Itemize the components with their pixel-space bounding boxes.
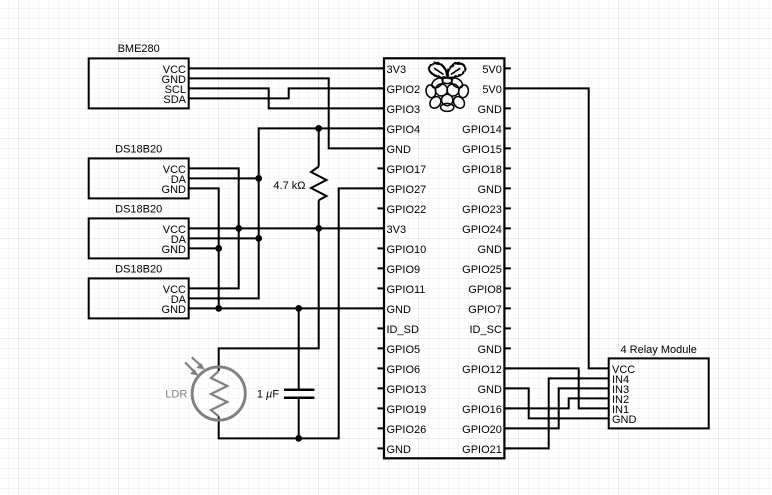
svg-text:4.7 kΩ: 4.7 kΩ bbox=[273, 180, 305, 192]
svg-text:3V3: 3V3 bbox=[387, 64, 407, 76]
svg-text:GND: GND bbox=[387, 444, 412, 456]
svg-text:BME280: BME280 bbox=[118, 43, 160, 55]
svg-text:3V3: 3V3 bbox=[387, 224, 407, 236]
svg-text:GPIO12: GPIO12 bbox=[462, 364, 502, 376]
svg-text:GPIO3: GPIO3 bbox=[387, 104, 421, 116]
svg-text:GPIO19: GPIO19 bbox=[387, 404, 427, 416]
svg-text:GND: GND bbox=[477, 384, 502, 396]
svg-text:GPIO24: GPIO24 bbox=[462, 224, 502, 236]
svg-text:GPIO2: GPIO2 bbox=[387, 84, 421, 96]
svg-text:DS18B20: DS18B20 bbox=[115, 204, 162, 216]
svg-text:LDR: LDR bbox=[165, 388, 187, 400]
svg-text:ID_SC: ID_SC bbox=[469, 324, 501, 336]
svg-text:GPIO8: GPIO8 bbox=[468, 284, 502, 296]
svg-text:GPIO17: GPIO17 bbox=[387, 164, 427, 176]
svg-text:GPIO4: GPIO4 bbox=[387, 124, 421, 136]
svg-text:GPIO15: GPIO15 bbox=[462, 144, 502, 156]
svg-text:GPIO27: GPIO27 bbox=[387, 184, 427, 196]
svg-text:SDA: SDA bbox=[163, 94, 186, 106]
svg-text:GND: GND bbox=[387, 304, 412, 316]
svg-text:GND: GND bbox=[162, 244, 187, 256]
svg-text:GPIO20: GPIO20 bbox=[462, 424, 502, 436]
svg-text:4 Relay Module: 4 Relay Module bbox=[620, 344, 696, 356]
svg-text:GPIO10: GPIO10 bbox=[387, 244, 427, 256]
svg-text:GPIO23: GPIO23 bbox=[462, 204, 502, 216]
svg-text:GPIO11: GPIO11 bbox=[387, 284, 426, 296]
svg-text:GPIO6: GPIO6 bbox=[387, 364, 421, 376]
svg-text:ID_SD: ID_SD bbox=[387, 324, 419, 336]
svg-text:GPIO9: GPIO9 bbox=[387, 264, 421, 276]
svg-text:GND: GND bbox=[477, 184, 502, 196]
svg-text:GPIO18: GPIO18 bbox=[462, 164, 502, 176]
svg-text:GND: GND bbox=[162, 304, 187, 316]
svg-text:DS18B20: DS18B20 bbox=[115, 264, 162, 276]
svg-text:GND: GND bbox=[162, 184, 187, 196]
svg-text:GND: GND bbox=[477, 244, 502, 256]
svg-text:GPIO13: GPIO13 bbox=[387, 384, 427, 396]
svg-text:GND: GND bbox=[477, 104, 502, 116]
svg-text:GND: GND bbox=[612, 414, 637, 426]
svg-text:5V0: 5V0 bbox=[482, 64, 502, 76]
svg-text:GPIO16: GPIO16 bbox=[462, 404, 502, 416]
svg-text:GPIO14: GPIO14 bbox=[462, 124, 502, 136]
svg-text:1 µF: 1 µF bbox=[257, 388, 280, 400]
svg-text:DS18B20: DS18B20 bbox=[115, 144, 162, 156]
svg-text:GPIO22: GPIO22 bbox=[387, 204, 427, 216]
svg-text:GND: GND bbox=[387, 144, 412, 156]
svg-text:GPIO25: GPIO25 bbox=[462, 264, 502, 276]
svg-text:GPIO5: GPIO5 bbox=[387, 344, 421, 356]
svg-text:GND: GND bbox=[477, 344, 502, 356]
svg-text:GPIO26: GPIO26 bbox=[387, 424, 427, 436]
svg-text:GPIO7: GPIO7 bbox=[468, 304, 502, 316]
svg-text:5V0: 5V0 bbox=[482, 84, 502, 96]
svg-text:GPIO21: GPIO21 bbox=[462, 444, 502, 456]
